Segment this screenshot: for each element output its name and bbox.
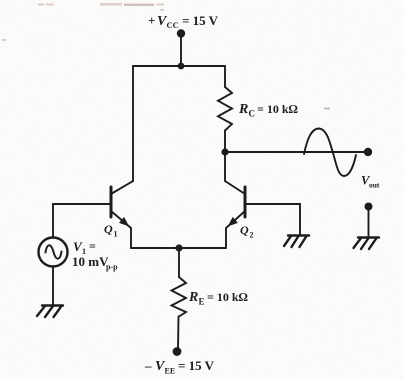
svg-text:R: R <box>238 102 248 117</box>
waveform sine at output <box>304 129 356 177</box>
svg-text:10 mV: 10 mV <box>72 254 109 269</box>
svg-text:= 15 V: = 15 V <box>182 13 219 28</box>
svg-text:–: – <box>144 358 152 373</box>
wire Q1 base <box>53 203 111 205</box>
resistor RE zigzag <box>172 277 187 317</box>
wire V1 top <box>52 204 54 237</box>
svg-text:out: out <box>369 181 380 190</box>
node top rail junction <box>178 63 185 70</box>
faint scan header marks <box>38 3 164 11</box>
terminal dot far right <box>365 203 373 211</box>
label RE = 10 kOhm <box>188 290 248 307</box>
ground bottom-left <box>37 306 63 318</box>
resistor RC zigzag <box>218 87 232 131</box>
transistor Q1 collector <box>111 181 133 194</box>
label Q2 <box>240 223 254 240</box>
wire Q2 emitter to tail node <box>179 247 226 249</box>
terminal dot Vout <box>364 148 372 156</box>
ground Q2 base <box>284 236 309 248</box>
svg-text:= 10 kΩ: = 10 kΩ <box>207 290 248 304</box>
node tail junction <box>175 244 182 251</box>
source V1 circle <box>39 238 68 267</box>
terminal dot -VEE <box>173 347 182 356</box>
svg-text:EE: EE <box>165 367 176 376</box>
svg-text:+: + <box>148 13 155 28</box>
transistor Q2 emitter <box>226 211 245 248</box>
wire RC to output node <box>224 131 226 153</box>
transistor Q1 emitter <box>111 211 131 248</box>
svg-text:R: R <box>188 290 198 305</box>
label Q1 <box>104 222 118 239</box>
svg-text:CC: CC <box>167 20 179 30</box>
label Vout <box>361 174 380 190</box>
wire Q1 emitter to tail node <box>131 247 179 249</box>
wire RE to VEE terminal <box>177 317 180 350</box>
label V1 = 10 mVpp <box>72 239 118 272</box>
source V1 sine <box>46 245 62 258</box>
wire top rail <box>133 65 225 67</box>
wire left drop to Q1 collector <box>132 66 134 181</box>
svg-text:2: 2 <box>250 231 254 240</box>
label -VEE = 15 V <box>144 358 215 376</box>
transistor Q2 base bar <box>244 187 247 217</box>
wire right drop to RC <box>224 66 226 87</box>
svg-text:Q: Q <box>104 222 113 236</box>
svg-text:= 15 V: = 15 V <box>178 358 215 373</box>
arrow Q1 emitter <box>120 218 128 226</box>
svg-text:1: 1 <box>114 230 118 239</box>
svg-text:C: C <box>249 109 256 119</box>
ground far right <box>354 238 380 250</box>
svg-text:=: = <box>89 239 96 253</box>
wire V1 bottom <box>52 267 54 306</box>
svg-text:= 10 kΩ: = 10 kΩ <box>257 102 298 116</box>
faint speck left edge <box>2 39 6 41</box>
transistor Q1 base bar <box>110 187 113 217</box>
svg-text:E: E <box>199 297 205 307</box>
label +VCC = 15 V <box>148 13 219 30</box>
wire output <box>225 151 366 153</box>
svg-text:p-p: p-p <box>106 263 118 272</box>
node output junction <box>221 148 228 155</box>
faint speck near RC label <box>324 108 330 110</box>
wire tail to RE <box>178 248 180 277</box>
arrow Q2 emitter <box>229 218 237 226</box>
label RC = 10 kOhm <box>238 102 298 119</box>
wire VCC terminal to top rail <box>180 34 182 66</box>
wire far right to ground <box>368 208 370 237</box>
wire Q2 base to ground <box>245 204 300 235</box>
transistor Q2 collector <box>225 152 245 194</box>
terminal dot +VCC <box>177 29 185 37</box>
svg-text:Q: Q <box>240 223 249 237</box>
